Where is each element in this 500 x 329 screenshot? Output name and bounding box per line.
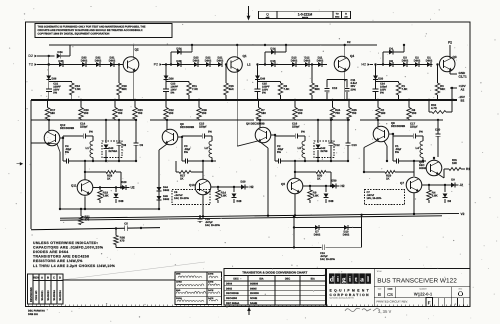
svg-text:103: 103 xyxy=(344,16,347,19)
svg-text:L2: L2 xyxy=(205,146,209,150)
svg-text:D662: D662 xyxy=(426,59,433,62)
svg-text:H2: H2 xyxy=(341,184,345,188)
svg-text:3, 35 V: 3, 35 V xyxy=(378,309,391,314)
svg-text:D46: D46 xyxy=(260,78,265,81)
svg-text:16V, 15-20%: 16V, 15-20% xyxy=(205,224,220,227)
svg-text:DATE: DATE xyxy=(208,273,214,276)
svg-text:COPYRIGHT 1969 BY DIGITAL EQUI: COPYRIGHT 1969 BY DIGITAL EQUIPMENT CORP… xyxy=(38,33,110,36)
svg-text:a: a xyxy=(360,274,364,283)
svg-text:TRANSISTORS ARE DEC4258: TRANSISTORS ARE DEC4258 xyxy=(33,255,89,259)
svg-text:D9: D9 xyxy=(451,179,455,182)
svg-text:750: 750 xyxy=(138,111,143,115)
svg-text:5002: 5002 xyxy=(335,16,339,19)
svg-text:6.8K: 6.8K xyxy=(103,194,109,198)
svg-text:Q10: Q10 xyxy=(189,183,195,187)
svg-text:7.5K: 7.5K xyxy=(284,87,290,91)
svg-text:150: 150 xyxy=(169,111,174,115)
svg-text:F2: F2 xyxy=(448,41,452,45)
svg-text:C12: C12 xyxy=(335,143,341,147)
svg-text:H2: H2 xyxy=(250,185,254,189)
svg-text:D15: D15 xyxy=(270,59,276,63)
svg-text:D24: D24 xyxy=(176,46,182,50)
svg-text:470: 470 xyxy=(85,218,90,222)
svg-text:D36: D36 xyxy=(51,78,56,81)
svg-text:SAME: SAME xyxy=(250,302,258,305)
svg-text:V2: V2 xyxy=(461,212,465,216)
svg-text:DEC3009B: DEC3009B xyxy=(226,292,239,295)
svg-text:1K: 1K xyxy=(386,177,390,181)
svg-text:BUS TRANSCEIVER W122: BUS TRANSCEIVER W122 xyxy=(377,277,457,284)
svg-text:D20: D20 xyxy=(378,78,383,81)
svg-text:B: B xyxy=(47,276,49,280)
svg-text:K2: K2 xyxy=(347,40,351,44)
svg-text:DEC 6534A: DEC 6534A xyxy=(226,302,240,305)
svg-text:D: D xyxy=(59,276,61,280)
svg-text:1K: 1K xyxy=(180,177,184,181)
svg-text:D662: D662 xyxy=(109,59,116,62)
svg-text:D34: D34 xyxy=(57,50,63,54)
svg-text:1-0-221M: 1-0-221M xyxy=(298,12,313,16)
svg-text:CORPORATION: CORPORATION xyxy=(330,293,370,297)
svg-text:DEC3009B: DEC3009B xyxy=(180,125,194,129)
svg-text:220pf: 220pf xyxy=(410,125,417,129)
svg-text:CODE: CODE xyxy=(388,288,394,291)
svg-text:5%: 5% xyxy=(277,151,281,154)
svg-text:6.8K: 6.8K xyxy=(432,194,438,198)
svg-text:MAYNARD, MASSACHUSETTS: MAYNARD, MASSACHUSETTS xyxy=(330,296,355,299)
svg-text:15K: 15K xyxy=(452,162,457,165)
svg-text:D662: D662 xyxy=(304,59,311,62)
svg-text:D8: D8 xyxy=(389,59,393,63)
svg-text:DRB 102: DRB 102 xyxy=(28,313,39,316)
svg-text:D662: D662 xyxy=(163,198,170,201)
svg-text:Q1: Q1 xyxy=(243,54,247,58)
svg-text:CHG NO: CHG NO xyxy=(35,290,38,300)
svg-text:F: F xyxy=(428,300,431,306)
svg-text:5%: 5% xyxy=(395,151,399,154)
svg-text:D662: D662 xyxy=(217,59,224,62)
svg-text:C8: C8 xyxy=(123,143,127,147)
svg-text:68K: 68K xyxy=(122,87,127,91)
svg-text:DRN: DRN xyxy=(176,273,181,276)
svg-text:g: g xyxy=(342,274,346,283)
svg-text:Q3: Q3 xyxy=(453,55,457,59)
svg-text:DEC: DEC xyxy=(233,278,238,281)
svg-text:C5: C5 xyxy=(124,222,128,226)
svg-text:150: 150 xyxy=(84,111,89,115)
svg-text:5%: 5% xyxy=(184,151,188,154)
svg-text:D662: D662 xyxy=(81,59,88,62)
svg-text:IN3606: IN3606 xyxy=(250,283,259,286)
svg-text:150: 150 xyxy=(412,111,417,115)
svg-text:1K: 1K xyxy=(107,177,111,181)
svg-text:6.8K: 6.8K xyxy=(221,194,227,198)
svg-text:NUMBER: NUMBER xyxy=(419,288,427,291)
svg-text:16V, 15-20%: 16V, 15-20% xyxy=(320,258,335,261)
svg-text:TRANSISTOR & DIODE CONVERSION: TRANSISTOR & DIODE CONVERSION CHART xyxy=(242,271,307,275)
svg-text:D38: D38 xyxy=(329,200,334,203)
svg-text:D664: D664 xyxy=(226,283,233,286)
svg-text:DEC3009B: DEC3009B xyxy=(60,126,74,130)
svg-text:D8: D8 xyxy=(448,200,452,203)
svg-text:Q: Q xyxy=(266,13,269,17)
svg-text:D29: D29 xyxy=(122,181,127,184)
svg-text:220pf: 220pf xyxy=(199,125,206,129)
svg-text:2N3009: 2N3009 xyxy=(250,292,259,295)
svg-text:CIRCUITS ARE PROPRIETARY IN NA: CIRCUITS ARE PROPRIETARY IN NATURE AND S… xyxy=(38,29,144,32)
svg-text:Q7: Q7 xyxy=(400,181,404,185)
svg-text:56K: 56K xyxy=(440,87,445,91)
svg-text:T2: T2 xyxy=(29,63,33,67)
svg-text:IN758: IN758 xyxy=(321,150,328,153)
svg-text:Q11: Q11 xyxy=(71,184,77,188)
svg-text:DIODES ARE D664: DIODES ARE D664 xyxy=(33,250,69,254)
svg-text:C9: C9 xyxy=(140,143,144,147)
svg-text:750: 750 xyxy=(118,111,123,115)
svg-text:A: A xyxy=(41,276,43,280)
svg-text:220pf: 220pf xyxy=(80,125,87,129)
svg-text:D662: D662 xyxy=(402,59,409,62)
svg-text:CHKD: CHKD xyxy=(176,281,182,284)
svg-text:1K: 1K xyxy=(317,177,321,181)
svg-text:180: 180 xyxy=(261,111,266,115)
svg-text:W-00023: W-00023 xyxy=(47,290,50,301)
svg-text:D662: D662 xyxy=(343,234,350,237)
svg-text:PRINTED CIRCUIT REV.: PRINTED CIRCUIT REV. xyxy=(377,300,409,304)
svg-text:D14: D14 xyxy=(270,46,276,50)
svg-text:DEC: DEC xyxy=(285,278,290,281)
svg-text:W-3009A: W-3009A xyxy=(53,290,56,301)
svg-text:D2: D2 xyxy=(28,54,33,58)
svg-text:EIA: EIA xyxy=(259,278,263,281)
svg-text:i: i xyxy=(337,274,339,283)
svg-text:68K: 68K xyxy=(315,87,320,91)
svg-text:PROD: PROD xyxy=(176,297,182,300)
svg-text:150: 150 xyxy=(298,111,303,115)
svg-text:D662: D662 xyxy=(163,189,170,192)
svg-text:L2: L2 xyxy=(247,63,251,67)
svg-text:IN758A: IN758A xyxy=(109,150,118,153)
svg-text:6.8K: 6.8K xyxy=(313,194,319,198)
svg-text:CAPACITORS ARE .01MFD,100V,20%: CAPACITORS ARE .01MFD,100V,20% xyxy=(33,245,104,249)
svg-text:150: 150 xyxy=(202,111,207,115)
svg-text:180: 180 xyxy=(381,111,386,115)
svg-text:DEC4258: DEC4258 xyxy=(226,297,237,300)
svg-text:R1: R1 xyxy=(466,167,470,171)
svg-text:C10: C10 xyxy=(332,86,338,90)
svg-text:EIA: EIA xyxy=(311,278,315,281)
svg-text:D662: D662 xyxy=(205,59,212,62)
svg-text:REV.: REV. xyxy=(459,288,463,291)
svg-text:D38: D38 xyxy=(119,200,124,203)
svg-text:750: 750 xyxy=(352,111,357,115)
svg-text:7.5K: 7.5K xyxy=(75,87,81,91)
svg-text:D662: D662 xyxy=(314,234,321,237)
svg-text:C: C xyxy=(53,276,55,280)
svg-text:EQUIPMENT: EQUIPMENT xyxy=(330,288,372,292)
svg-text:Q2: Q2 xyxy=(135,48,139,52)
svg-text:RESISTORS ARE 1/4W,5%: RESISTORS ARE 1/4W,5% xyxy=(33,259,83,263)
svg-text:D4: D4 xyxy=(389,46,393,50)
svg-text:D662: D662 xyxy=(291,59,298,62)
svg-text:20%: 20% xyxy=(351,88,357,91)
svg-text:DATE: DATE xyxy=(208,281,214,284)
svg-text:180: 180 xyxy=(50,111,55,115)
svg-text:W-03234: W-03234 xyxy=(59,290,62,301)
svg-text:TO: TO xyxy=(336,13,339,16)
svg-text:D662: D662 xyxy=(414,59,421,62)
svg-text:W122-0-1: W122-0-1 xyxy=(414,292,433,297)
svg-text:UNLESS OTHERWISE INDICATED:: UNLESS OTHERWISE INDICATED: xyxy=(33,241,98,245)
svg-text:L3: L3 xyxy=(298,146,302,150)
svg-text:DATE: DATE xyxy=(208,289,214,292)
svg-text:16V, 15-20%: 16V, 15-20% xyxy=(367,197,382,200)
svg-text:7.5K: 7.5K xyxy=(402,87,408,91)
svg-text:Q4: Q4 xyxy=(350,54,354,58)
svg-text:l: l xyxy=(367,274,369,283)
svg-text:C13: C13 xyxy=(352,143,358,147)
svg-text:D35: D35 xyxy=(58,59,64,63)
svg-text:750: 750 xyxy=(335,111,340,115)
svg-text:DEC3009B: DEC3009B xyxy=(391,124,405,128)
svg-text:L4: L4 xyxy=(416,146,420,150)
svg-text:U2: U2 xyxy=(131,186,135,190)
svg-text:IN645: IN645 xyxy=(250,287,257,290)
svg-text:D39: D39 xyxy=(332,180,337,183)
svg-text:L1: L1 xyxy=(86,146,90,150)
svg-text:REV: REV xyxy=(33,276,39,280)
svg-text:D662: D662 xyxy=(226,287,233,290)
svg-text:i: i xyxy=(349,274,351,283)
svg-text:4.7K: 4.7K xyxy=(431,106,437,110)
svg-text:L1 THRU L4 ARE 2.2µH CHOKES 1/: L1 THRU L4 ARE 2.2µH CHOKES 1/4W,10% xyxy=(33,264,116,268)
svg-text:D28: D28 xyxy=(237,200,242,203)
svg-text:D662: D662 xyxy=(193,59,200,62)
svg-text:THIS SCHEMATIC IS FURNISHED ON: THIS SCHEMATIC IS FURNISHED ONLY FOR TES… xyxy=(38,25,146,28)
svg-text:Q6 DEC3009B: Q6 DEC3009B xyxy=(246,122,265,126)
svg-text:220pf: 220pf xyxy=(292,125,299,129)
svg-text:470: 470 xyxy=(120,239,125,243)
svg-text:7.5K: 7.5K xyxy=(192,87,198,91)
svg-text:CS: CS xyxy=(387,292,393,297)
svg-text:A2: A2 xyxy=(461,88,465,92)
svg-text:C20: C20 xyxy=(435,128,441,132)
svg-text:3009B: 3009B xyxy=(419,167,427,170)
svg-text:W-00021: W-00021 xyxy=(41,290,44,301)
svg-text:D26: D26 xyxy=(169,78,174,81)
svg-text:REVISIONS: REVISIONS xyxy=(30,287,33,302)
svg-text:P2: P2 xyxy=(154,63,158,67)
svg-text:H2: H2 xyxy=(361,63,366,67)
svg-text:NONE: NONE xyxy=(250,297,258,300)
svg-text:ENG: ENG xyxy=(176,289,181,292)
svg-text:B: B xyxy=(378,292,381,297)
svg-text:B2: B2 xyxy=(461,98,465,102)
svg-text:TITLE: TITLE xyxy=(377,270,383,273)
svg-text:Q5: Q5 xyxy=(281,182,285,186)
svg-text:D29: D29 xyxy=(241,181,246,184)
svg-text:D662: D662 xyxy=(317,59,324,62)
svg-text:D28: D28 xyxy=(176,59,182,63)
svg-text:16V, 15-20%: 16V, 15-20% xyxy=(174,197,189,200)
svg-text:D662: D662 xyxy=(95,59,102,62)
svg-text:C2,T1: C2,T1 xyxy=(459,74,468,78)
